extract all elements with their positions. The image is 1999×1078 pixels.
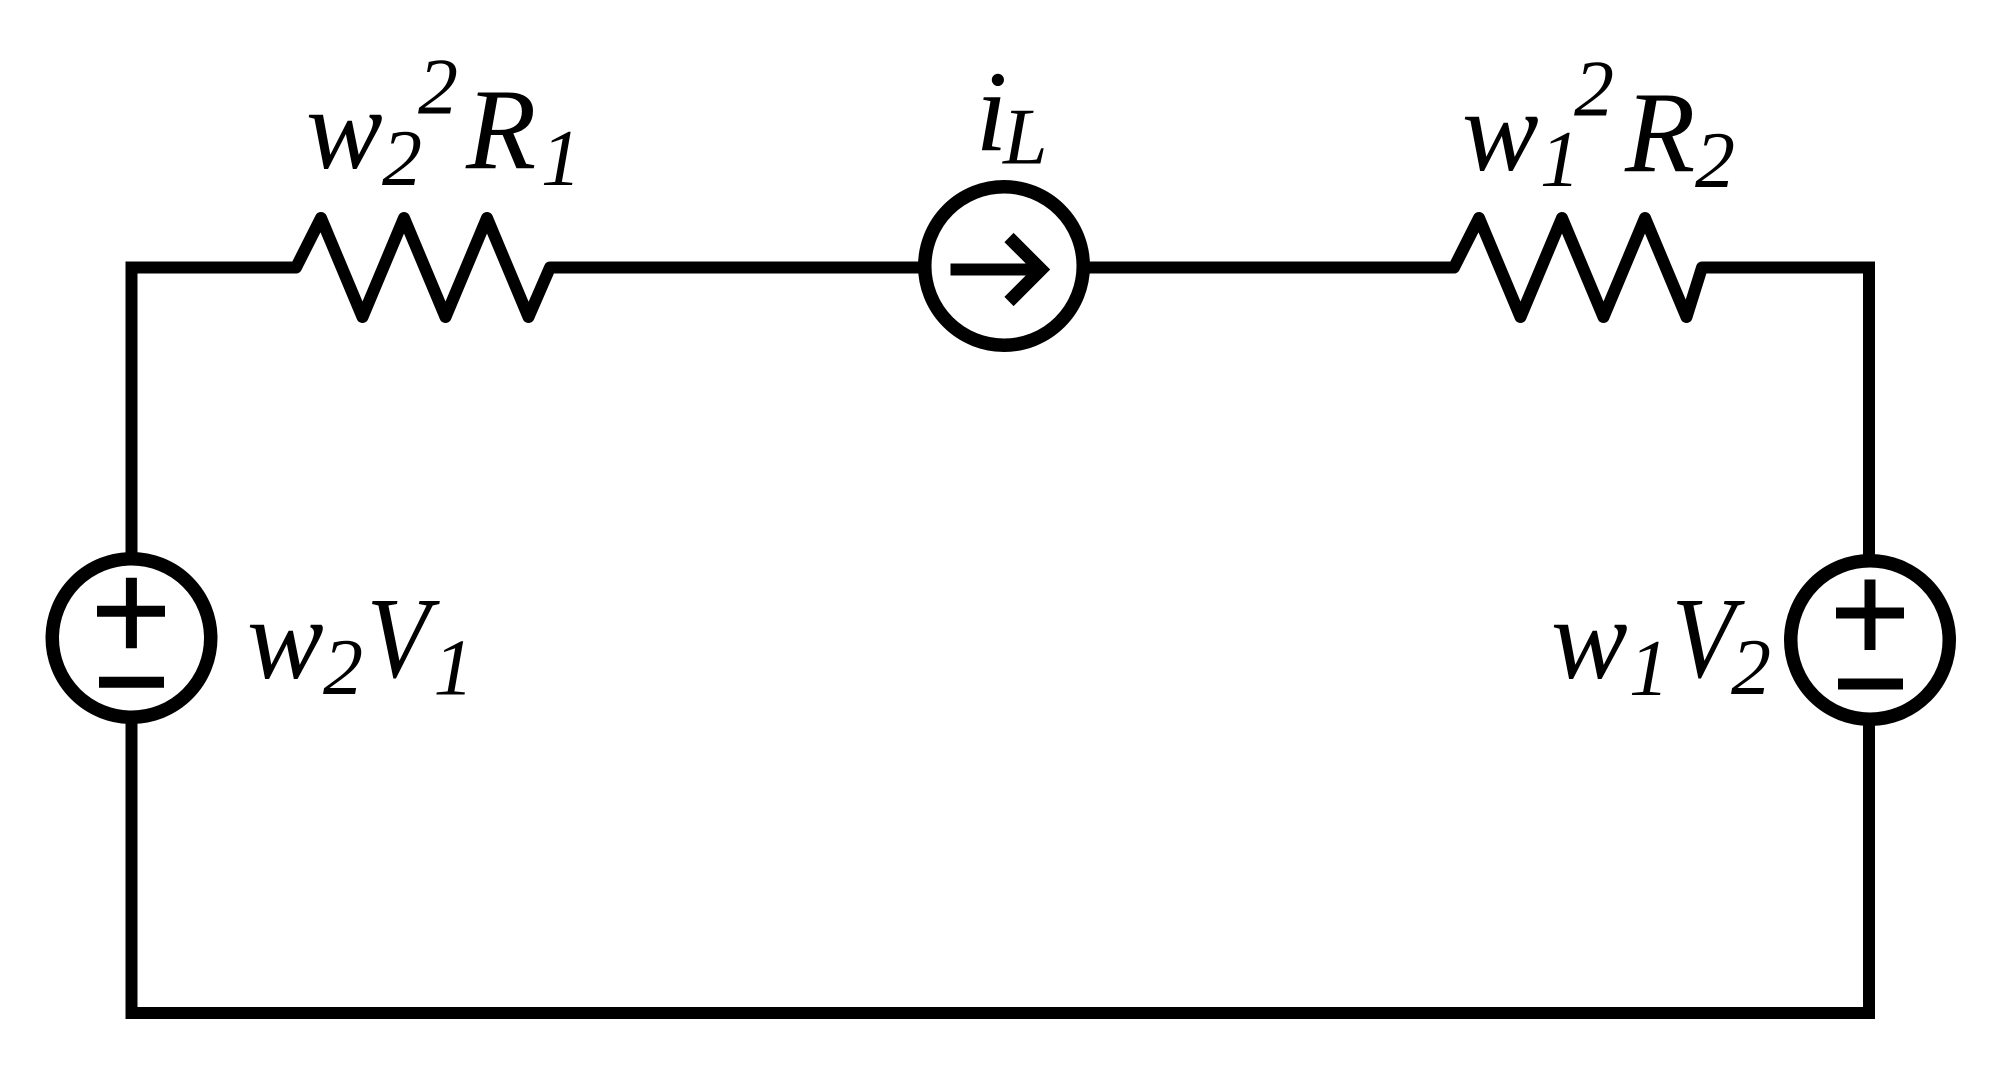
voltage source V2 circle xyxy=(1791,561,1950,720)
wire left vertical lower segment xyxy=(126,723,138,1019)
svg-text:w: w xyxy=(1462,68,1539,195)
svg-text:R: R xyxy=(1624,69,1695,196)
svg-text:V: V xyxy=(367,575,441,702)
svg-text:2: 2 xyxy=(1695,117,1735,205)
V1 plus sign xyxy=(97,606,165,617)
wire left vertical upper segment xyxy=(126,262,138,556)
V2 minus sign xyxy=(1838,679,1903,690)
svg-text:2: 2 xyxy=(1731,624,1771,712)
svg-text:w: w xyxy=(1551,576,1628,703)
current source arrow shaft xyxy=(951,264,1041,276)
svg-text:2: 2 xyxy=(323,624,363,712)
svg-text:w: w xyxy=(306,66,383,193)
current source arrow head xyxy=(1009,238,1041,302)
wire bottom xyxy=(126,1007,1876,1019)
svg-text:1: 1 xyxy=(434,625,474,713)
svg-text:2: 2 xyxy=(418,44,458,132)
wire top-left + resistor R1 zigzag + wire to current source xyxy=(126,218,923,317)
wire current source to R2 + resistor R2 zigzag + wire to top-right corner xyxy=(1086,218,1875,317)
voltage source V1 circle xyxy=(52,559,211,718)
V1 minus sign xyxy=(99,677,164,688)
svg-text:1: 1 xyxy=(541,115,581,203)
svg-text:R: R xyxy=(465,66,536,193)
svg-text:w: w xyxy=(247,576,324,703)
svg-text:2: 2 xyxy=(1574,46,1614,134)
svg-text:2: 2 xyxy=(382,115,422,203)
wire right vertical lower segment xyxy=(1863,724,1875,1019)
svg-text:L: L xyxy=(1002,94,1048,182)
V2 plus sign xyxy=(1836,608,1904,619)
wire right vertical upper segment xyxy=(1863,262,1875,557)
svg-text:1: 1 xyxy=(1629,625,1669,713)
current source iL circle xyxy=(925,187,1084,346)
